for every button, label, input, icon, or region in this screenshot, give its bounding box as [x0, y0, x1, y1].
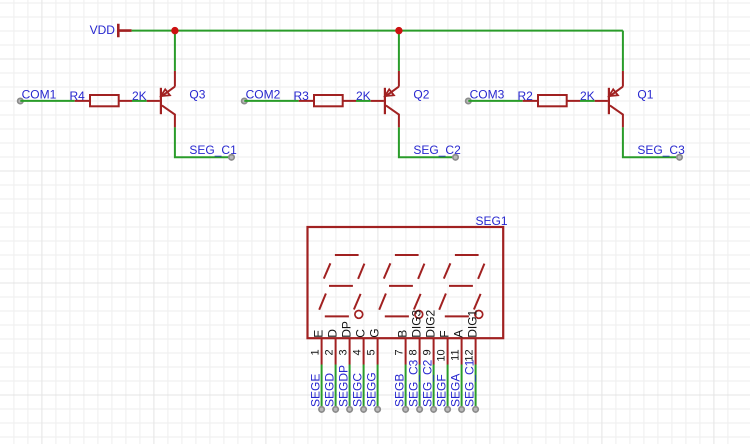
wire SEG_C3 net — [623, 127, 679, 157]
svg-text:Q1: Q1 — [637, 88, 653, 102]
svg-text:COM1: COM1 — [22, 88, 57, 102]
pin 9 (DIG2) of SEG1 — [433, 338, 435, 364]
wire net SEG_C3 — [419, 365, 421, 409]
pin 5 (G) of SEG1 — [377, 338, 379, 364]
wire Q2 collector up — [398, 31, 400, 71]
svg-text:A: A — [452, 330, 466, 338]
svg-text:2: 2 — [324, 349, 336, 355]
node SEG_C1 pin — [229, 155, 234, 160]
junction on VDD rail — [171, 27, 178, 34]
junction on VDD rail — [395, 27, 402, 34]
svg-text:5: 5 — [366, 349, 378, 355]
wire net SEGE — [321, 365, 323, 409]
node SEG_C3 pin — [677, 155, 682, 160]
pin 3 (DP) of SEG1 — [349, 338, 351, 364]
transistor Q2 — [371, 71, 399, 128]
node COM3 pin — [466, 98, 471, 103]
wire net SEGF — [447, 365, 449, 409]
pin 11 (A) of SEG1 — [461, 338, 463, 364]
wire COM2 to R3 — [244, 100, 298, 102]
svg-text:SEGD: SEGD — [323, 373, 337, 407]
wire Q3 collector up — [174, 31, 176, 71]
svg-text:SEGB: SEGB — [393, 374, 407, 407]
wire net SEG_C1 — [475, 365, 477, 409]
wire net SEGDP — [349, 365, 351, 409]
wire net SEGC — [363, 365, 365, 409]
svg-text:3: 3 — [338, 349, 350, 355]
pin 1 (E) of SEG1 — [321, 338, 323, 364]
svg-text:SEGF: SEGF — [435, 374, 449, 407]
svg-text:DIG3: DIG3 — [410, 309, 424, 337]
resistor R4 — [75, 95, 132, 106]
svg-text:7: 7 — [394, 349, 406, 355]
supply VDD symbol — [118, 24, 131, 37]
svg-text:4: 4 — [352, 349, 364, 355]
node SEGD pin end — [333, 407, 338, 412]
svg-text:C: C — [354, 329, 368, 338]
svg-text:SEG_C2: SEG_C2 — [421, 359, 435, 407]
svg-text:E: E — [312, 330, 326, 338]
node SEGB pin end — [403, 407, 408, 412]
svg-text:R2: R2 — [518, 89, 534, 103]
svg-text:Q2: Q2 — [413, 88, 429, 102]
svg-text:COM2: COM2 — [246, 88, 281, 102]
node SEGC pin end — [361, 407, 366, 412]
svg-text:11: 11 — [450, 349, 462, 360]
node SEG_C1 pin end — [473, 407, 478, 412]
wire Q1 collector up — [622, 31, 624, 71]
svg-text:SEGA: SEGA — [449, 374, 463, 407]
display SEG1 body — [308, 227, 504, 338]
node COM2 pin — [242, 98, 247, 103]
node SEGDP pin end — [347, 407, 352, 412]
display digit 2 decimal point — [415, 311, 423, 319]
wire R2 to Q1 base — [580, 100, 595, 102]
svg-text:D: D — [326, 329, 340, 338]
svg-text:R3: R3 — [294, 89, 310, 103]
svg-text:B: B — [396, 330, 410, 338]
svg-text:DP: DP — [340, 321, 354, 338]
wire net SEG_C2 — [433, 365, 435, 409]
display digit 1 segments — [319, 255, 364, 316]
wire SEG_C1 net — [175, 127, 231, 157]
node SEGE pin end — [319, 407, 324, 412]
transistor Q3 — [147, 71, 175, 128]
wire R4 to Q3 base — [132, 100, 147, 102]
wire net SEGD — [335, 365, 337, 409]
svg-text:SEGDP: SEGDP — [337, 365, 351, 407]
pin 10 (F) of SEG1 — [447, 338, 449, 364]
display digit 2 segments — [379, 255, 424, 316]
svg-text:SEG_C1: SEG_C1 — [463, 359, 477, 407]
svg-text:R4: R4 — [70, 89, 86, 103]
pin 4 (C) of SEG1 — [363, 338, 365, 364]
svg-text:1: 1 — [310, 349, 322, 355]
pin 8 (DIG3) of SEG1 — [419, 338, 421, 364]
pin 12 (DIG1) of SEG1 — [475, 338, 477, 364]
wire net SEGG — [377, 365, 379, 409]
resistor R2 — [523, 95, 580, 106]
pin 7 (B) of SEG1 — [405, 338, 407, 364]
svg-text:SEGC: SEGC — [351, 373, 365, 407]
node SEG_C2 pin — [453, 155, 458, 160]
svg-text:VDD: VDD — [90, 23, 116, 37]
display digit 3 decimal point — [475, 311, 483, 319]
wire R3 to Q2 base — [356, 100, 371, 102]
node SEG_C2 pin end — [431, 407, 436, 412]
wire VDD rail — [132, 30, 623, 32]
node COM1 pin — [18, 98, 23, 103]
resistor R3 — [299, 95, 356, 106]
svg-text:DIG1: DIG1 — [466, 309, 480, 337]
display digit 3 segments — [439, 255, 484, 316]
svg-text:SEG_C3: SEG_C3 — [407, 359, 421, 407]
node SEGF pin end — [445, 407, 450, 412]
svg-text:G: G — [368, 328, 382, 337]
display digit 1 decimal point — [355, 311, 363, 319]
svg-text:F: F — [438, 330, 452, 337]
transistor Q1 — [595, 71, 623, 128]
wire COM1 to R4 — [20, 100, 74, 102]
wire SEG_C2 net — [399, 127, 455, 157]
svg-text:SEG1: SEG1 — [476, 214, 508, 228]
svg-text:10: 10 — [436, 349, 448, 361]
wire net SEGB — [405, 365, 407, 409]
svg-text:SEGE: SEGE — [309, 374, 323, 407]
svg-text:Q3: Q3 — [189, 88, 205, 102]
wire net SEGA — [461, 365, 463, 409]
pin 2 (D) of SEG1 — [335, 338, 337, 364]
svg-text:9: 9 — [422, 349, 434, 355]
svg-text:COM3: COM3 — [470, 88, 505, 102]
node SEGG pin end — [375, 407, 380, 412]
svg-text:8: 8 — [408, 349, 420, 355]
node SEGA pin end — [459, 407, 464, 412]
svg-text:DIG2: DIG2 — [424, 309, 438, 337]
wire COM3 to R2 — [468, 100, 522, 102]
node SEG_C3 pin end — [417, 407, 422, 412]
svg-text:SEGG: SEGG — [365, 372, 379, 407]
